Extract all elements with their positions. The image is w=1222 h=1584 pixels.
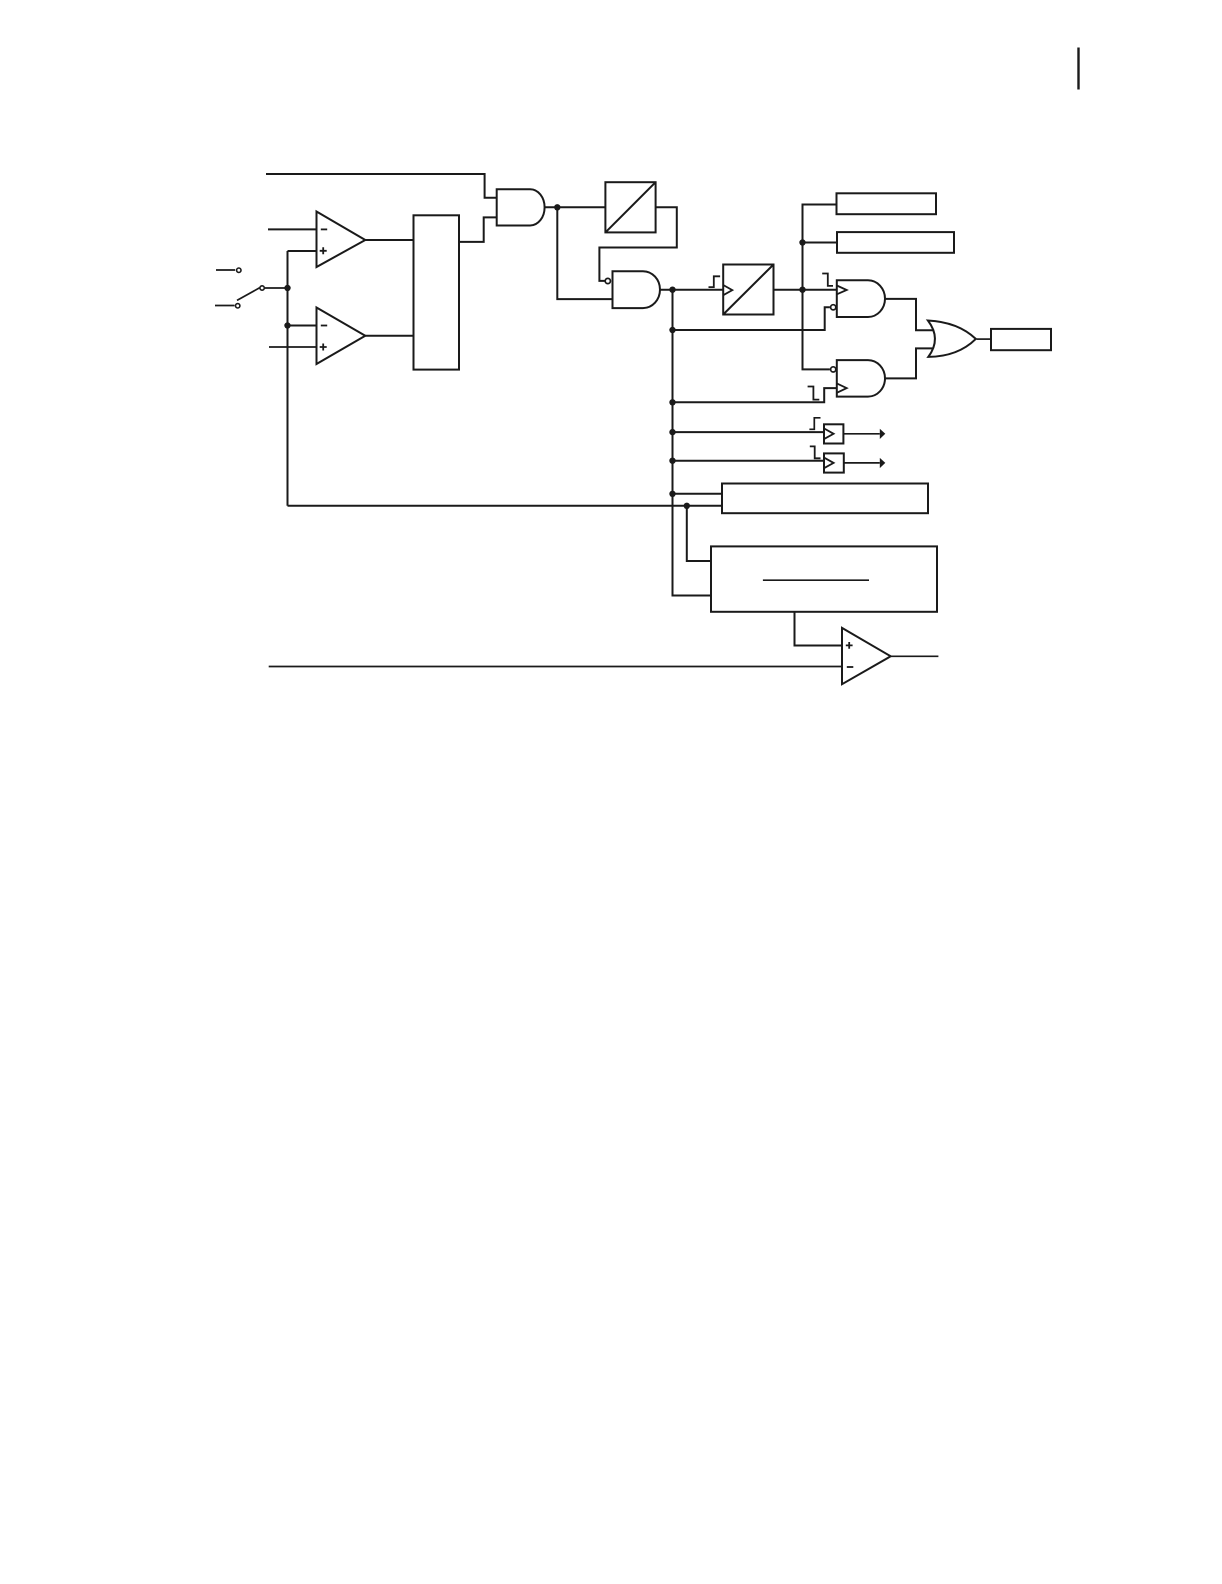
register R2 <box>837 232 954 253</box>
OR gate U8 <box>928 321 976 357</box>
wire right bus down to AND U7 bubble <box>803 290 830 370</box>
block A2 <box>722 484 928 514</box>
node feedback junction <box>684 503 690 509</box>
wire A3 output down to comparator U9 <box>795 612 843 646</box>
AND gate U6 <box>837 280 885 317</box>
wire T1 output arrow <box>843 433 879 435</box>
node junction U3 output <box>554 204 560 210</box>
block A3 <box>711 546 937 611</box>
falling edge glyph before trigger T2 <box>810 446 821 458</box>
wire B2 output to AND U6 clock input <box>774 289 837 291</box>
node junction B2 output <box>799 287 805 293</box>
wire right bus up to status register <box>803 205 837 290</box>
wire OR output <box>977 338 991 340</box>
U7 bubble <box>831 367 836 372</box>
fraction bar inside A3 <box>763 579 869 581</box>
wire bus y461 to trigger T2 <box>673 460 825 462</box>
falling edge glyph before U7 <box>808 387 820 400</box>
node bus y402 <box>669 399 675 405</box>
node junction switch-bus <box>284 285 290 291</box>
wire U3 output to isolator box <box>545 206 607 208</box>
edge-triggered box B2 <box>723 265 773 315</box>
node right bus y242 <box>799 239 805 245</box>
wire bus y432 to trigger T1 <box>673 431 825 433</box>
node junction U5 output <box>669 287 675 293</box>
wire to register R2 <box>803 242 838 244</box>
wire isolator B1 output to NAND U5 inverted input <box>599 207 676 281</box>
comparator U1 <box>317 212 366 268</box>
block A1 (window comparator logic) <box>414 215 460 369</box>
node bus y494 <box>669 491 675 497</box>
wire U3 output down to NAND U5 lower input <box>557 207 613 299</box>
comparator U2 <box>317 308 366 365</box>
switch S1 pole and arm <box>260 286 264 290</box>
wire comparator U2 inverting input <box>288 325 318 327</box>
node bus y432 <box>669 429 675 435</box>
wire U7 output to OR gate <box>885 348 934 378</box>
wire bus y330 to U6 bubble input <box>673 307 830 330</box>
wire U5 output to edge box B2 <box>660 289 723 291</box>
page crop mark tick top right <box>1077 48 1079 90</box>
AND gate U7 <box>837 360 885 397</box>
isolator box B1 <box>605 182 655 232</box>
trigger box T1 <box>824 424 843 443</box>
wire T2 output arrow <box>844 462 880 464</box>
register R1 <box>837 193 937 214</box>
rising edge glyph before trigger T1 <box>809 418 820 430</box>
AND gate U3 <box>497 189 545 225</box>
wire comparator U2 output <box>365 335 414 337</box>
wire feedback junction down to block A3 <box>687 506 711 561</box>
NAND U5 input bubble <box>605 278 610 283</box>
wire bus y402 to U7 clock input <box>673 388 837 402</box>
NAND gate U5 <box>613 271 660 308</box>
wire U9 output <box>891 655 939 657</box>
wire comparator U1 non-inverting input <box>288 250 318 252</box>
wire U6 output to OR gate <box>885 299 934 330</box>
wire comparator U2 non-inverting input <box>269 346 318 348</box>
wire block A1 output to AND gate U3 lower input <box>459 217 498 242</box>
wire vertical bus from U5 output <box>673 290 712 596</box>
register R3 <box>991 329 1051 350</box>
wire top input to AND gate U3 <box>266 174 498 198</box>
node junction U2 inverting <box>284 322 290 328</box>
wire comparator U1 output <box>365 239 414 241</box>
wire bus from U1 + input down to feedback <box>287 251 289 506</box>
wire bus y494 to block A2 <box>673 493 723 495</box>
rising edge glyph before B2 <box>709 276 721 287</box>
node bus y330 <box>669 327 675 333</box>
wire comparator U1 inverting input <box>268 228 318 230</box>
falling edge glyph above U6 <box>822 274 833 286</box>
wire feedback from switch bus to block A2 <box>288 505 723 507</box>
node bus y461 <box>669 458 675 464</box>
trigger box T2 <box>824 453 844 472</box>
comparator U9 <box>842 628 891 684</box>
wire long lower input to U9 inverting <box>269 666 842 668</box>
U6 bubble <box>831 305 836 310</box>
wire switch pole to bus <box>265 287 288 289</box>
switch S1 throw terminal 2 <box>215 305 235 307</box>
switch S1 throw terminal 1 <box>216 269 235 271</box>
